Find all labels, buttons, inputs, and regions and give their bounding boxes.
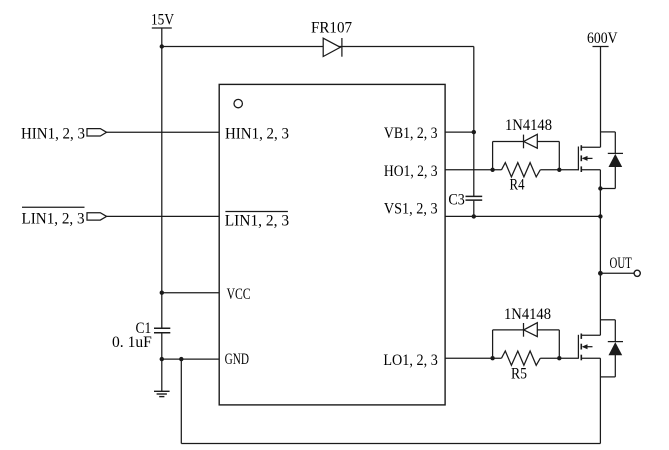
node GND junction right bbox=[179, 357, 183, 361]
wire 600V down to drain bbox=[600, 47, 602, 148]
LIN input connector bbox=[87, 213, 107, 220]
svg-text:LIN1, 2, 3: LIN1, 2, 3 bbox=[225, 213, 289, 230]
node high-side source junction bbox=[598, 186, 602, 190]
svg-text:HIN1, 2, 3: HIN1, 2, 3 bbox=[225, 125, 289, 142]
node R4 left junction bbox=[490, 168, 494, 172]
diode body low-side bbox=[600, 320, 623, 377]
svg-text:LIN1, 2, 3: LIN1, 2, 3 bbox=[22, 210, 85, 227]
svg-text:VCC: VCC bbox=[227, 286, 251, 303]
wire GND bbox=[162, 358, 219, 360]
IC U1 body bbox=[219, 84, 445, 405]
OUT terminal bbox=[610, 255, 641, 276]
capacitor C3 bbox=[448, 192, 482, 209]
transistor Q2 low-side MOSFET bbox=[578, 334, 600, 361]
node R4 right junction bbox=[557, 168, 561, 172]
wire VCC bbox=[162, 292, 219, 294]
svg-text:1N4148: 1N4148 bbox=[505, 117, 552, 134]
wire bootstrap diode loop top bbox=[493, 142, 560, 170]
node VS-rail junction bbox=[598, 214, 602, 218]
svg-text:OUT: OUT bbox=[610, 255, 632, 272]
svg-text:HIN1, 2, 3: HIN1, 2, 3 bbox=[21, 125, 85, 142]
svg-text:FR107: FR107 bbox=[311, 20, 352, 37]
svg-text:VB1, 2, 3: VB1, 2, 3 bbox=[384, 125, 438, 142]
svg-text:1N4148: 1N4148 bbox=[504, 306, 551, 323]
wire bottom return rail bbox=[181, 359, 600, 443]
wire VB1 bbox=[445, 131, 474, 133]
svg-text:C3: C3 bbox=[448, 192, 464, 209]
600V supply bbox=[587, 30, 618, 47]
15V supply bbox=[151, 12, 174, 29]
HIN input connector bbox=[87, 129, 107, 136]
wire top rail to FR107 and down to VB bbox=[162, 47, 474, 217]
IC pin-1 circle marker bbox=[234, 99, 242, 107]
wire switch-node rail bbox=[599, 170, 601, 335]
node LIN1,2,3 input label bbox=[22, 207, 85, 227]
wire LIN input bbox=[107, 215, 220, 217]
svg-text:LO1, 2, 3: LO1, 2, 3 bbox=[383, 352, 437, 369]
svg-text:600V: 600V bbox=[587, 30, 618, 47]
diode D2 1N4148 bbox=[504, 306, 551, 337]
resistor R5 bbox=[502, 351, 541, 383]
node VB junction bbox=[472, 130, 476, 134]
svg-text:HO1, 2, 3: HO1, 2, 3 bbox=[384, 163, 438, 180]
diode D1 1N4148 bbox=[505, 117, 552, 148]
wire low diode loop top bbox=[493, 330, 560, 358]
node GND junction left bbox=[160, 357, 164, 361]
diode FR107 bbox=[311, 20, 352, 57]
diode body high-side bbox=[600, 132, 623, 189]
pin LIN1,2,3 label bbox=[225, 212, 289, 230]
svg-text:R4: R4 bbox=[510, 177, 525, 194]
svg-text:R5: R5 bbox=[511, 366, 527, 383]
wire OUT bbox=[600, 272, 633, 274]
node R5 left junction bbox=[490, 356, 494, 360]
capacitor C1 bbox=[112, 320, 170, 351]
wire LO1 to gate bbox=[445, 357, 578, 359]
node 15V branch junction bbox=[160, 44, 164, 48]
node VCC junction bbox=[160, 291, 164, 295]
node VS-C3 junction bbox=[472, 214, 476, 218]
wire 15V rail vertical bbox=[161, 28, 163, 328]
ground bbox=[154, 391, 170, 396]
svg-text:VS1, 2, 3: VS1, 2, 3 bbox=[384, 200, 438, 217]
resistor R4 bbox=[502, 163, 541, 194]
node R5 right junction bbox=[557, 356, 561, 360]
node OUT junction bbox=[598, 271, 603, 276]
svg-text:15V: 15V bbox=[151, 12, 174, 29]
transistor Q1 high-side MOSFET bbox=[578, 145, 600, 172]
wire low-side source down to rail bbox=[599, 358, 601, 443]
svg-text:GND: GND bbox=[225, 351, 249, 368]
wire HIN input bbox=[107, 131, 220, 133]
wire 15V rail below C1 to ground bbox=[161, 333, 163, 391]
wire HO1 to gate bbox=[445, 169, 578, 171]
wire VS1 bbox=[445, 215, 600, 217]
svg-text:0. 1uF: 0. 1uF bbox=[112, 334, 152, 351]
